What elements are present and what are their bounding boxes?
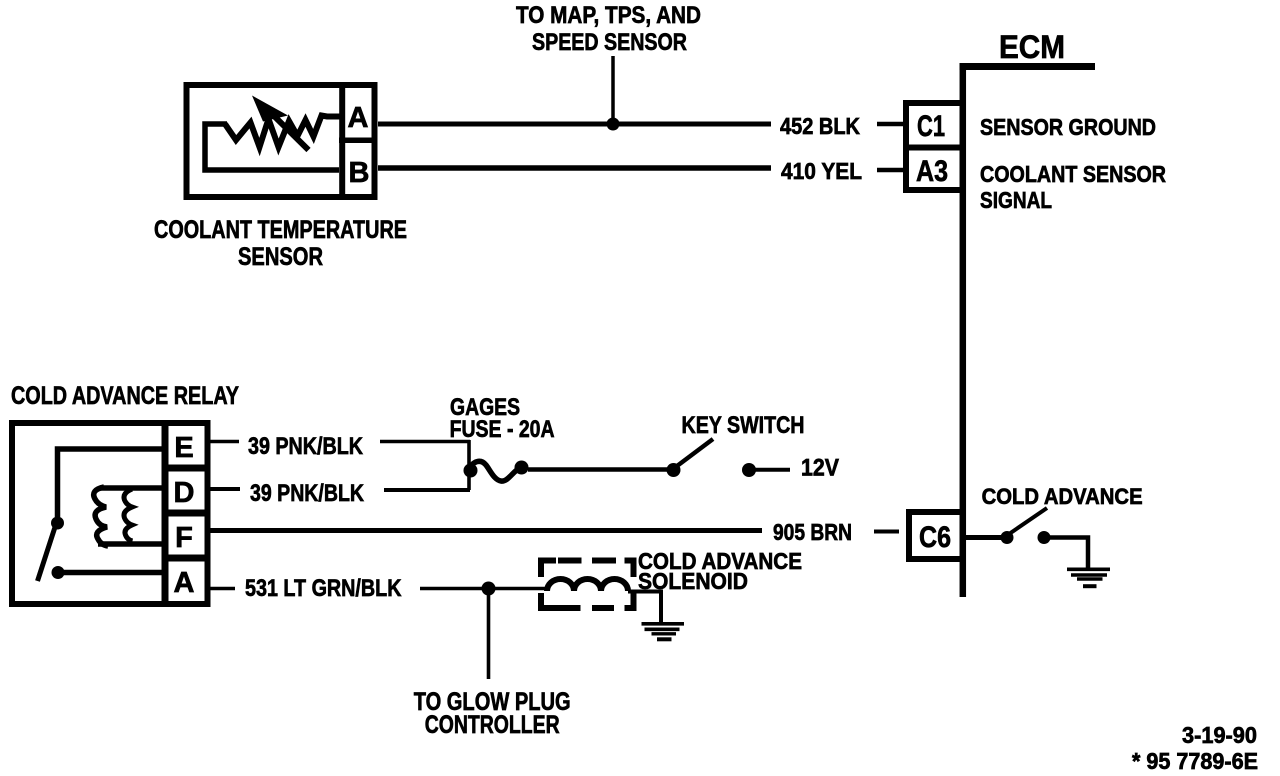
wire vertical drop from speed sensor label — [611, 56, 615, 124]
wire fuse to key switch — [528, 467, 667, 472]
svg-text:SIGNAL: SIGNAL — [980, 187, 1052, 213]
ECM top bar — [960, 63, 1096, 70]
wire 531 to solenoid — [420, 587, 547, 591]
relay switch arm — [38, 524, 57, 581]
svg-text:E: E — [174, 432, 193, 464]
fuse left terminal dot — [464, 464, 478, 478]
wire solenoid to ground — [628, 592, 661, 624]
thermistor arrow shaft — [268, 110, 309, 150]
label COLD ADVANCE SOLENOID — [638, 548, 802, 594]
cold advance solenoid dashed box — [541, 561, 634, 609]
thermistor arrowhead — [252, 96, 288, 122]
svg-text:SPEED SENSOR: SPEED SENSOR — [532, 29, 687, 56]
wire vertical joining both 39 circuits at fuse — [467, 440, 471, 490]
svg-text:COOLANT TEMPERATURE: COOLANT TEMPERATURE — [154, 216, 407, 244]
wire 905 BRN stub to C6 — [874, 530, 899, 534]
svg-text:* 95 7789-6E: * 95 7789-6E — [1132, 748, 1258, 774]
svg-text:39 PNK/BLK: 39 PNK/BLK — [250, 480, 365, 507]
relay switch pivot dot — [51, 517, 64, 530]
svg-text:A: A — [174, 567, 195, 599]
relay internal wire from E to switch pivot — [58, 449, 162, 517]
svg-text:12V: 12V — [801, 455, 839, 482]
label COOLANT SENSOR SIGNAL — [980, 161, 1166, 213]
fuse right terminal dot — [515, 461, 529, 475]
coolant temperature sensor pin A/B divider — [339, 137, 377, 143]
svg-text:SENSOR GROUND: SENSOR GROUND — [980, 114, 1156, 140]
relay coil left winding — [94, 487, 108, 546]
coolant temperature sensor label — [154, 216, 407, 271]
fuse element squiggle — [468, 461, 521, 481]
coolant temperature sensor pin column divider — [339, 82, 345, 200]
svg-text:SENSOR: SENSOR — [238, 243, 323, 271]
wire down to glow plug controller — [487, 595, 491, 679]
svg-text:452 BLK: 452 BLK — [780, 113, 860, 139]
wire from switch to ground — [1050, 538, 1088, 569]
relay coil right winding — [124, 489, 133, 541]
node TO MAP TPS AND SPEED SENSOR label — [516, 2, 701, 56]
relay pin separator D/F — [162, 510, 211, 517]
wire 410 YEL stub to A3 — [877, 168, 903, 173]
node junction dot on 452 wire — [607, 118, 620, 131]
svg-text:3-19-90: 3-19-90 — [1182, 722, 1257, 748]
relay lower contact dot — [52, 566, 65, 579]
cold advance switch arm — [1009, 508, 1047, 534]
wire 905 BRN from pin F — [211, 528, 763, 533]
svg-text:COLD ADVANCE: COLD ADVANCE — [982, 484, 1143, 509]
gages fuse label — [450, 394, 555, 443]
svg-text:D: D — [174, 477, 195, 509]
svg-text:COOLANT SENSOR: COOLANT SENSOR — [980, 161, 1166, 187]
ground symbol under solenoid — [642, 624, 685, 640]
wire from 39 PNK/BLK row1 to fuse — [380, 440, 470, 444]
cold advance switch right dot — [1038, 531, 1051, 544]
svg-text:TO MAP, TPS, AND: TO MAP, TPS, AND — [516, 2, 701, 29]
wire from C6 to cold advance switch — [966, 535, 1001, 540]
junction dot 531 — [482, 582, 496, 596]
relay coil bottom wire to pin F — [98, 541, 162, 547]
connector C6 box — [909, 512, 963, 559]
svg-text:B: B — [349, 157, 370, 189]
relay internal wire from contact to pin A — [58, 570, 162, 576]
connector C1 box — [906, 103, 963, 148]
wire to 12V — [755, 468, 790, 472]
solenoid coil arches — [547, 579, 628, 591]
relay pin separator E/D — [162, 465, 211, 472]
svg-text:CONTROLLER: CONTROLLER — [425, 711, 560, 739]
key switch right contact dot — [742, 463, 756, 477]
svg-text:39 PNK/BLK: 39 PNK/BLK — [248, 433, 364, 460]
cold advance relay outer box — [12, 423, 208, 604]
ground symbol right — [1067, 569, 1110, 586]
svg-text:905 BRN: 905 BRN — [773, 519, 852, 545]
wire pin D stub 39 PNK/BLK — [211, 487, 241, 491]
svg-text:ECM: ECM — [999, 29, 1065, 65]
svg-text:C1: C1 — [917, 110, 945, 143]
connector A3 box — [906, 148, 963, 191]
wire from 39 PNK/BLK row2 to fuse — [384, 488, 470, 492]
svg-text:A: A — [348, 102, 369, 134]
key switch arm — [677, 439, 713, 466]
svg-text:F: F — [175, 522, 193, 554]
coolant temperature sensor outer box — [187, 85, 375, 197]
svg-text:A3: A3 — [916, 155, 948, 188]
wire 452 BLK stub to C1 — [877, 122, 903, 127]
ECM spine vertical line — [960, 63, 967, 597]
svg-text:COLD ADVANCE RELAY: COLD ADVANCE RELAY — [11, 382, 239, 410]
svg-text:FUSE - 20A: FUSE - 20A — [450, 416, 555, 443]
key switch left contact dot — [667, 463, 681, 477]
wire pin E stub 39 PNK/BLK — [211, 440, 240, 444]
wire 410 YEL horizontal — [378, 165, 771, 171]
thermistor zigzag resistor — [225, 116, 340, 148]
relay pin separator F/A — [162, 555, 211, 562]
thermistor leads inside sensor — [205, 124, 339, 170]
svg-text:410 YEL: 410 YEL — [781, 158, 862, 184]
svg-text:KEY SWITCH: KEY SWITCH — [682, 412, 805, 439]
relay pin column divider — [162, 420, 169, 607]
svg-text:531 LT GRN/BLK: 531 LT GRN/BLK — [245, 575, 402, 602]
relay coil top wire to pin D — [100, 485, 162, 491]
wire pin A stub 531 — [211, 587, 236, 591]
label TO GLOW PLUG CONTROLLER — [414, 688, 571, 739]
cold advance switch left dot — [1001, 531, 1014, 544]
wire 452 BLK horizontal — [378, 122, 771, 127]
svg-text:C6: C6 — [919, 521, 951, 554]
